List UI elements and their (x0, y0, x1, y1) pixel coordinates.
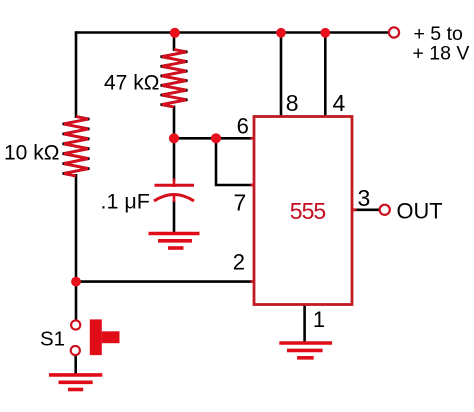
svg-text:4: 4 (333, 90, 346, 116)
pin stub 2 (251, 280, 256, 283)
svg-text:10 kΩ: 10 kΩ (4, 142, 59, 165)
junction node top rail / pin 8 (276, 28, 286, 38)
switch S1 pushbutton (71, 319, 120, 355)
op-amp style IC box U1 555 (254, 117, 352, 305)
svg-text:3: 3 (358, 185, 371, 211)
svg-text:OUT: OUT (397, 199, 443, 224)
wire R2 bottom to node B (173, 106, 176, 140)
ground under switch S1 (49, 375, 102, 390)
wire switch S1 bottom contact to ground (74, 354, 77, 374)
wire node A down to switch S1 top contact (75, 281, 78, 321)
wire node B down to capacitor C1 (173, 138, 176, 181)
svg-text:8: 8 (286, 90, 299, 116)
svg-text:2: 2 (233, 250, 245, 275)
svg-text:1: 1 (313, 307, 325, 332)
ground under pin 1 (279, 343, 332, 358)
svg-text:S1: S1 (40, 327, 65, 350)
OUT terminal (380, 205, 390, 215)
junction node top rail / R2 (170, 28, 180, 38)
supply terminal (389, 27, 399, 37)
wire left vertical (top rail to R1 top) (75, 31, 78, 118)
capacitor C1 .1 uF (154, 179, 194, 203)
wire pin 1 to ground (303, 305, 306, 342)
resistor R1 10 kOhm (63, 117, 90, 177)
wire capacitor C1 to ground (173, 200, 176, 233)
junction node B R2 / C1 (169, 133, 179, 143)
pin stub 7 (251, 184, 256, 187)
ground under capacitor C1 (149, 234, 200, 249)
svg-text:+ 18 V: + 18 V (413, 43, 470, 65)
wire left vertical (R1 bottom to node A) (75, 174, 78, 282)
junction node A R1 / S1 / pin2 (71, 277, 81, 287)
junction node top rail / pin 4 (320, 28, 330, 38)
junction node C pin6 / pin7 (211, 133, 221, 143)
wire top rail to R2 top (173, 33, 176, 52)
svg-text:6: 6 (237, 114, 249, 139)
svg-text:7: 7 (234, 190, 247, 216)
wire node B to node C to pin 6 (174, 137, 252, 140)
pin stub 3 (351, 208, 357, 211)
pin stub 6 (251, 137, 256, 140)
svg-text:555: 555 (290, 198, 326, 224)
svg-text:.1 μF: .1 μF (101, 190, 150, 214)
wire top horizontal rail (76, 31, 388, 34)
svg-text:47 kΩ: 47 kΩ (104, 72, 159, 95)
wire pin 3 to OUT terminal (352, 209, 380, 212)
wire node C down and right to pin 7 (216, 138, 252, 185)
wire pin 8 to top rail (280, 33, 283, 118)
wire pin 4 to top rail (324, 33, 327, 118)
resistor R2 47 kOhm (161, 50, 188, 108)
wire node A to pin 2 (76, 280, 252, 283)
